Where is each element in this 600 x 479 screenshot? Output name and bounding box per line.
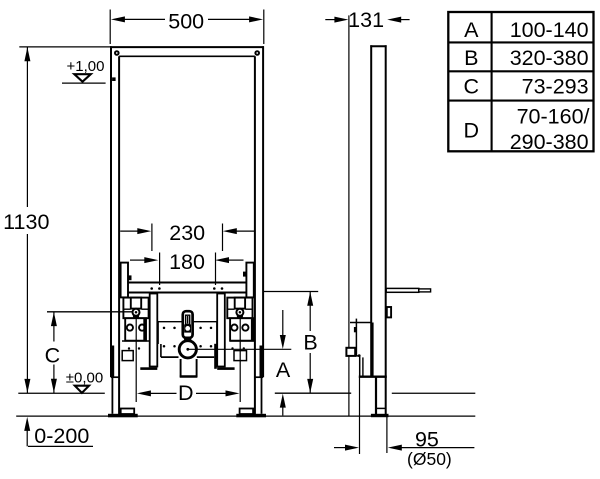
svg-text:95: 95 xyxy=(415,427,439,451)
svg-text:D: D xyxy=(178,381,194,405)
svg-text:1130: 1130 xyxy=(3,210,49,234)
svg-text:C: C xyxy=(45,344,61,368)
svg-text:±0,00: ±0,00 xyxy=(66,370,103,387)
svg-text:500: 500 xyxy=(168,9,204,33)
svg-text:320-380: 320-380 xyxy=(510,46,589,70)
svg-text:131: 131 xyxy=(348,8,384,32)
svg-text:A: A xyxy=(276,358,291,382)
svg-text:230: 230 xyxy=(169,221,205,245)
svg-text:73-293: 73-293 xyxy=(522,75,589,99)
svg-text:0-200: 0-200 xyxy=(34,424,89,448)
svg-text:290-380: 290-380 xyxy=(510,130,589,154)
svg-text:+1,00: +1,00 xyxy=(67,58,105,75)
svg-text:100-140: 100-140 xyxy=(510,18,589,42)
svg-text:B: B xyxy=(464,46,478,70)
svg-text:180: 180 xyxy=(169,250,205,274)
svg-text:B: B xyxy=(303,330,317,354)
svg-text:70-160/: 70-160/ xyxy=(517,105,590,129)
svg-text:D: D xyxy=(464,118,480,142)
svg-text:(Ø50): (Ø50) xyxy=(407,449,452,469)
svg-text:A: A xyxy=(464,18,479,42)
svg-text:C: C xyxy=(464,75,480,99)
